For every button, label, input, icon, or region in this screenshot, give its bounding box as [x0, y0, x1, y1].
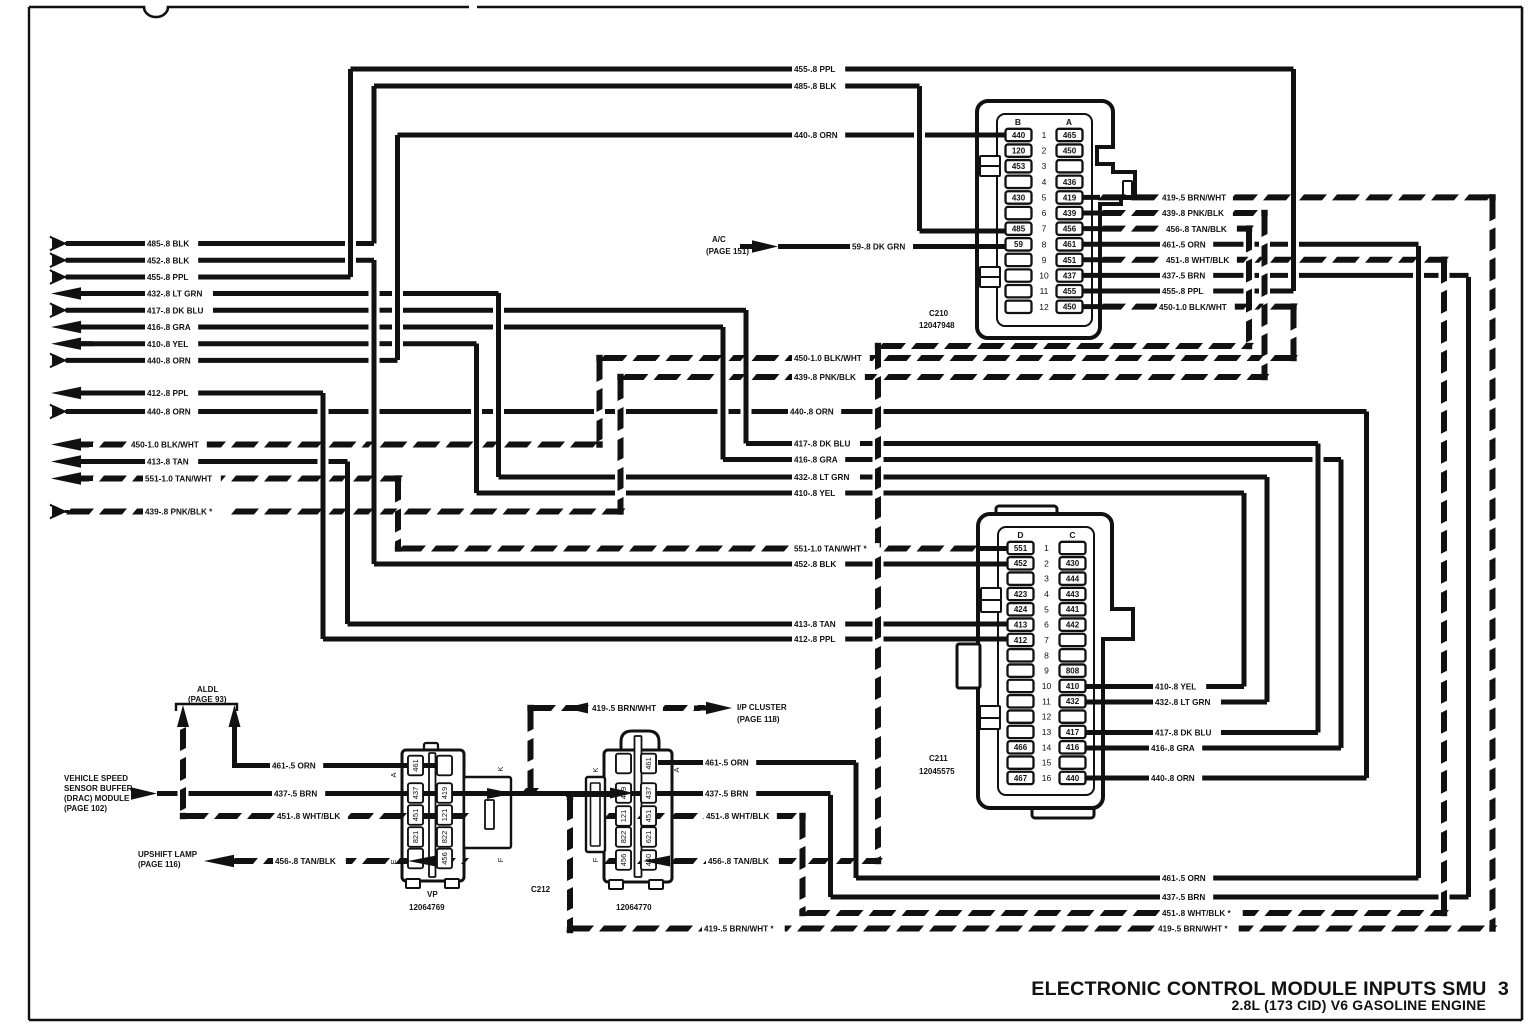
svg-text:430: 430	[1012, 193, 1026, 202]
wire 455 PPL top run	[351, 67, 1294, 72]
wire 417 DK BLU vertical left	[744, 310, 749, 444]
connector C210 inner outline	[997, 114, 1092, 326]
wire 451 WHT/BLK from C212 connector	[604, 813, 632, 819]
C211 pin C9 box	[1060, 664, 1086, 676]
label 440-.8 ORN	[1149, 773, 1202, 784]
label 451-.8 WHT/BLK	[275, 811, 348, 822]
svg-text:12047948: 12047948	[919, 321, 955, 330]
connector 12064770 body	[604, 750, 672, 882]
C210 pin B1 box	[1006, 129, 1032, 141]
svg-text:467: 467	[1014, 774, 1028, 783]
C210 pin A1 box	[1057, 129, 1083, 141]
arrow 452 BLK	[50, 253, 53, 267]
wire 551 stub at pin D1	[976, 546, 1007, 551]
C210 pin A2 box	[1057, 144, 1083, 156]
svg-text:455-.8 PPL: 455-.8 PPL	[794, 65, 835, 74]
arrow 485 BLK	[50, 237, 53, 251]
C211 pin C12 box	[1060, 710, 1086, 722]
wire 452 BLK left row	[66, 258, 345, 263]
C210 pin A10 box	[1057, 269, 1083, 281]
svg-text:451: 451	[1063, 256, 1077, 265]
arrow 432 LT GRN	[51, 287, 81, 299]
wire 416 GRA from pin C14	[1086, 746, 1341, 751]
svg-text:461: 461	[411, 759, 420, 772]
svg-text:452: 452	[1014, 559, 1028, 568]
connector 12064770 bottom foot left	[609, 880, 623, 889]
label 416-.8 GRA	[792, 454, 845, 465]
svg-text:8: 8	[1042, 239, 1047, 249]
svg-text:UPSHIFT LAMP: UPSHIFT LAMP	[138, 850, 198, 859]
wire 451 WHT/BLK vertical right	[1441, 260, 1447, 284]
VP pin box right 4	[437, 827, 452, 847]
svg-text:430: 430	[1066, 559, 1080, 568]
VP pin box left 4	[408, 827, 423, 847]
wire 419 BRN/WHT bottom row	[566, 926, 594, 932]
svg-text:11: 11	[1040, 286, 1049, 296]
label 451-.8 WHT/BLK *	[1160, 908, 1243, 919]
svg-text:59-.8 DK GRN: 59-.8 DK GRN	[852, 243, 905, 252]
wire 410 YEL left row	[66, 341, 369, 346]
dashed corner elbow	[1489, 194, 1495, 200]
svg-text:440-.8 ORN: 440-.8 ORN	[794, 131, 838, 140]
wire 417 DK BLU vertical right	[1316, 444, 1321, 733]
svg-text:440: 440	[1012, 131, 1026, 140]
connector C210 tab slot	[1123, 181, 1132, 199]
svg-text:416: 416	[1066, 743, 1080, 752]
C211 pin C6 box	[1060, 618, 1086, 630]
label 410-.8 YEL	[1153, 681, 1206, 692]
12064770 pin value left 2 overlay	[616, 783, 631, 803]
wire 416 GRA left row	[66, 325, 369, 330]
svg-text:485: 485	[1012, 225, 1026, 234]
wire 412 PPL left row	[66, 391, 323, 396]
C211 pin C16 box	[1060, 772, 1086, 784]
arrow to upshift lamp	[204, 855, 234, 867]
connector VP right latch	[464, 777, 511, 848]
svg-text:121: 121	[440, 809, 449, 822]
wire 419 BRN/WHT stub into C212 connector	[566, 792, 616, 797]
wire 432 LT GRN left row	[66, 291, 369, 296]
dashed corner elbow	[527, 705, 533, 711]
svg-text:456: 456	[1063, 225, 1077, 234]
svg-text:432-.8 LT GRN: 432-.8 LT GRN	[1155, 698, 1210, 707]
12064770 pin value right 4 overlay	[641, 827, 656, 847]
C210 pin B11 box	[1006, 285, 1032, 297]
svg-text:808: 808	[1066, 667, 1080, 676]
C210 pin A5 box	[1057, 191, 1083, 203]
wire 461 ORN from C212 connector	[658, 760, 856, 765]
wire 440 ORN left row	[66, 358, 369, 363]
C211 pin D13 box	[1008, 726, 1034, 738]
wire 461 ORN bottom row	[856, 876, 1419, 881]
connector C211 bottom bump	[1032, 802, 1094, 818]
arrow 456 through VP	[408, 856, 436, 867]
C211 pin C1 box	[1060, 542, 1086, 554]
svg-text:10: 10	[1039, 271, 1049, 281]
wire 455 PPL vertical right	[1291, 69, 1296, 291]
svg-text:1: 1	[1044, 543, 1049, 553]
C211 pin C13 box	[1060, 726, 1086, 738]
dashed corner elbow	[799, 910, 805, 916]
wire 432 LT GRN from pin C11	[1086, 700, 1267, 705]
connector C211 body	[978, 514, 1133, 808]
wire 452 BLK into pin D2	[374, 562, 873, 567]
svg-text:A/C: A/C	[712, 235, 726, 244]
label 551-1.0 TAN/WHT *	[792, 543, 880, 554]
wire 450 BLK/WHT from pin A12	[1098, 304, 1126, 310]
svg-text:432: 432	[1066, 697, 1080, 706]
wire 452 BLK vertical down	[372, 260, 377, 564]
12064770 pin value left 3 overlay	[616, 806, 631, 826]
dashed corner elbow	[617, 508, 623, 514]
svg-text:432-.8 LT GRN: 432-.8 LT GRN	[794, 473, 849, 482]
C211 pin D9 box	[1008, 664, 1034, 676]
C211 pin D8 box	[1008, 649, 1034, 661]
svg-text:466: 466	[1014, 743, 1028, 752]
svg-text:450: 450	[1063, 303, 1077, 312]
arrow ALDL solid up	[229, 705, 241, 727]
label 450-1.0 BLK/WHT	[129, 439, 207, 450]
svg-text:440-.8 ORN: 440-.8 ORN	[1151, 774, 1195, 783]
wire 410 YEL link row	[477, 491, 616, 496]
C211 pin C2 box	[1060, 557, 1086, 569]
VP pin value left 3 overlay	[408, 805, 423, 825]
12064770 pin value left 5 overlay	[616, 850, 631, 870]
label 451-.8 WHT/BLK	[704, 811, 777, 822]
svg-text:410: 410	[1066, 682, 1080, 691]
svg-text:461-.5 ORN: 461-.5 ORN	[705, 759, 749, 768]
svg-text:(PAGE 93): (PAGE 93)	[188, 695, 227, 704]
arrow 437 through C212	[487, 788, 513, 799]
svg-text:10: 10	[1042, 681, 1052, 691]
wire 419 BRN/WHT jog foot	[521, 788, 539, 794]
svg-text:4: 4	[1042, 177, 1047, 187]
svg-text:455: 455	[1063, 287, 1077, 296]
wire 432 LT GRN vertical left	[496, 293, 501, 477]
label 461-.5 ORN	[270, 760, 323, 771]
svg-text:C211: C211	[929, 754, 948, 763]
label 413-.8 TAN	[792, 619, 845, 630]
VP pin box right 5	[437, 849, 452, 869]
C211 pin D14 box	[1008, 741, 1034, 753]
wire 440 ORN from pin C16	[1086, 776, 1367, 781]
C211 pin D2 box	[1008, 557, 1034, 569]
arrow 440 ORN long	[50, 405, 53, 419]
dashed corner elbow	[1261, 210, 1267, 216]
label 452-.8 BLK	[145, 255, 198, 266]
label 439-.8 PNK/BLK *	[143, 506, 226, 517]
label 416-.8 GRA	[145, 322, 198, 333]
label 432-.8 LT GRN	[792, 472, 860, 483]
VP pin value right 2 overlay	[437, 783, 452, 803]
label 455-.8 PPL	[792, 64, 845, 75]
svg-text:437: 437	[411, 787, 420, 800]
svg-text:7: 7	[1044, 635, 1049, 645]
wire 59 DK GRN into pin B8	[778, 244, 1006, 249]
svg-text:13: 13	[1042, 727, 1052, 737]
VP pin value right 4 overlay	[437, 827, 452, 847]
wire 419 BRN/WHT IP cluster row	[528, 705, 556, 711]
svg-text:419-.5 BRN/WHT *: 419-.5 BRN/WHT *	[1158, 925, 1228, 934]
svg-text:A: A	[1066, 117, 1072, 127]
connector VP center rib	[429, 753, 436, 877]
svg-text:120: 120	[1012, 147, 1026, 156]
C211 pin C7 box	[1060, 634, 1086, 646]
svg-text:441: 441	[1066, 605, 1080, 614]
svg-text:419: 419	[1063, 193, 1077, 202]
12064770 pin box right 3	[641, 806, 656, 826]
svg-text:F: F	[496, 857, 505, 862]
wire 410 YEL from pin C10	[1086, 684, 1244, 689]
label 452-.8 BLK	[792, 559, 845, 570]
C210 pin A8 box	[1057, 238, 1083, 250]
wire 451 stub at pin A9	[1083, 257, 1100, 262]
svg-text:14: 14	[1042, 742, 1052, 752]
wire 455 PPL from pin A11	[1083, 289, 1244, 294]
svg-text:419-.5 BRN/WHT *: 419-.5 BRN/WHT *	[704, 925, 774, 934]
svg-text:410-.8 YEL: 410-.8 YEL	[147, 340, 188, 349]
C211 pin C14 box	[1060, 741, 1086, 753]
svg-text:SENSOR BUFFER: SENSOR BUFFER	[64, 784, 133, 793]
connector C211 left mounting tab	[957, 644, 980, 688]
wire 451 WHT/BLK from pin A9	[1098, 257, 1126, 263]
arrow 417 DK BLU	[50, 303, 53, 317]
C210 pin A6 box	[1057, 207, 1083, 219]
dashed corner elbow	[1246, 225, 1252, 231]
connector VP body	[402, 750, 464, 881]
dashed corner elbow	[1489, 925, 1495, 931]
VP pin box right 1	[437, 756, 452, 776]
wire 440 ORN top run into pin B1	[398, 133, 915, 138]
connector VP bottom foot right	[445, 879, 459, 888]
dashed corner elbow	[180, 813, 186, 819]
svg-text:12064770: 12064770	[616, 903, 652, 912]
12064770 pin value right 2 overlay	[641, 783, 656, 803]
arrow 410 YEL	[51, 338, 81, 350]
svg-text:410-.8 YEL: 410-.8 YEL	[1155, 683, 1196, 692]
VP pin box right 2	[437, 783, 452, 803]
label 456-.8 TAN/BLK	[706, 856, 779, 867]
svg-text:VEHICLE SPEED: VEHICLE SPEED	[64, 774, 128, 783]
wire 437 BRN vertical bottom	[828, 795, 833, 897]
svg-text:621: 621	[644, 831, 653, 844]
12064770 pin box left 2	[616, 783, 631, 803]
C211 pin D5 box	[1008, 603, 1034, 615]
svg-text:451: 451	[411, 809, 420, 822]
svg-text:(DRAC) MODULE: (DRAC) MODULE	[64, 794, 130, 803]
svg-text:413: 413	[1014, 621, 1028, 630]
12064770 pin box right 5	[641, 850, 656, 870]
svg-text:461-.5 ORN: 461-.5 ORN	[272, 762, 316, 771]
C211 pin D1 box	[1008, 542, 1034, 554]
wire 437 BRN row	[157, 791, 178, 796]
wire 485 BLK vertical up	[372, 86, 377, 244]
svg-text:11: 11	[1042, 696, 1051, 706]
label 461-.5 ORN	[1160, 873, 1213, 884]
svg-text:822: 822	[440, 831, 449, 844]
svg-text:419-.5 BRN/WHT: 419-.5 BRN/WHT	[1162, 194, 1226, 203]
dashed corner elbow	[1441, 910, 1447, 916]
svg-text:453: 453	[1012, 162, 1026, 171]
wire 461 ORN vertical bottom	[854, 763, 859, 879]
svg-text:I/P CLUSTER: I/P CLUSTER	[737, 703, 787, 712]
dashed corner elbow	[395, 545, 401, 551]
C210 pin B9 box	[1006, 254, 1032, 266]
VP pin value left 2 overlay	[408, 783, 423, 803]
wire 410 YEL vertical right	[1242, 493, 1247, 687]
connector 12064770 latch inner	[591, 783, 601, 846]
wire 437 BRN from pin A10	[1083, 273, 1244, 278]
svg-text:423: 423	[1014, 590, 1028, 599]
svg-text:412: 412	[1014, 636, 1028, 645]
wire 451 WHT/BLK vertical ALDL	[180, 727, 186, 751]
wire 419 BRN/WHT vertical jog lower	[567, 797, 573, 821]
wire 432 LT GRN link row	[499, 475, 616, 480]
wire 456 TAN/BLK from C212 connector	[604, 858, 632, 864]
svg-text:450-1.0 BLK/WHT: 450-1.0 BLK/WHT	[1159, 303, 1227, 312]
C210 pin B8 box	[1006, 238, 1032, 250]
wire 412 PPL vertical	[321, 393, 326, 639]
svg-text:3: 3	[1044, 574, 1049, 584]
VP pin box left 1	[408, 756, 423, 776]
C211 pin D12 box	[1008, 710, 1034, 722]
svg-text:443: 443	[1066, 590, 1080, 599]
C210 pin B5 box	[1006, 191, 1032, 203]
wire 456 TAN/BLK vertical middle	[875, 346, 881, 370]
VP pin box left 3	[408, 805, 423, 825]
label 440-.8 ORN	[792, 130, 845, 141]
wire 419 BRN/WHT from pin A5	[1098, 194, 1126, 200]
svg-text:5: 5	[1044, 604, 1049, 614]
wire 551 TAN/WHT into pin D1	[398, 546, 426, 552]
svg-text:440-.8 ORN: 440-.8 ORN	[147, 357, 191, 366]
svg-text:437-.5 BRN: 437-.5 BRN	[274, 790, 317, 799]
label 419-.5 BRN/WHT	[590, 703, 663, 714]
label 455-.8 PPL	[145, 272, 198, 283]
svg-text:451-.8 WHT/BLK *: 451-.8 WHT/BLK *	[1162, 909, 1232, 918]
svg-text:437: 437	[644, 787, 653, 800]
svg-text:451: 451	[644, 810, 653, 823]
svg-text:439-.8 PNK/BLK: 439-.8 PNK/BLK	[794, 373, 856, 382]
label 450-1.0 BLK/WHT	[792, 353, 870, 364]
C210 pin B12 box	[1006, 301, 1032, 313]
arrow ALDL dashed up	[177, 705, 189, 727]
svg-text:121: 121	[619, 810, 628, 823]
VP pin box left 5	[408, 849, 423, 869]
label 437-.5 BRN	[1160, 892, 1213, 903]
svg-text:437-.5 BRN: 437-.5 BRN	[705, 790, 748, 799]
wire 440 ORN vertical left	[395, 135, 400, 360]
C210 pin B7 box	[1006, 223, 1032, 235]
arrow 450 BLK/WHT	[51, 438, 81, 450]
page border top	[29, 7, 1522, 17]
svg-text:465: 465	[1063, 131, 1077, 140]
svg-text:2: 2	[1042, 146, 1047, 156]
svg-text:15: 15	[1042, 758, 1052, 768]
svg-text:412-.8 PPL: 412-.8 PPL	[147, 389, 188, 398]
dashed corner elbow	[875, 343, 881, 349]
C210 pin A4 box	[1057, 176, 1083, 188]
wire 413 TAN vertical	[345, 462, 350, 625]
dashed corner elbow	[1290, 303, 1296, 309]
wire 417 DK BLU left row	[66, 308, 369, 313]
wire 419 BRN/WHT vertical right	[1490, 197, 1496, 221]
VP pin value left 5 overlay	[408, 849, 423, 869]
connector VP top tab	[424, 743, 438, 753]
svg-text:461-.5 ORN: 461-.5 ORN	[1162, 874, 1206, 883]
svg-text:416-.8 GRA: 416-.8 GRA	[794, 456, 838, 465]
svg-text:419: 419	[440, 787, 449, 800]
wire 437 BRN bottom row	[831, 895, 1439, 900]
svg-text:456: 456	[619, 854, 628, 867]
connector C210 left bump lower	[980, 267, 1000, 277]
label 417-.8 DK BLU	[792, 438, 860, 449]
C211 pin C4 box	[1060, 588, 1086, 600]
12064770 pin box left 3	[616, 806, 631, 826]
wire 450 stub at pin A12	[1083, 304, 1100, 309]
wire 451 WHT/BLK into VP connector	[181, 813, 209, 819]
svg-text:485-.8 BLK: 485-.8 BLK	[147, 240, 189, 249]
svg-text:K: K	[496, 766, 505, 771]
svg-text:551-1.0 TAN/WHT: 551-1.0 TAN/WHT	[145, 475, 212, 484]
svg-text:ALDL: ALDL	[197, 685, 218, 694]
wire 440 ORN long row	[66, 409, 318, 414]
label 437-.5 BRN	[1160, 270, 1213, 281]
wire 432 LT GRN vertical right	[1265, 477, 1270, 702]
label 451-.8 WHT/BLK	[1164, 254, 1237, 265]
wire 450 BLK/WHT vertical left	[597, 358, 603, 382]
label 416-.8 GRA	[1149, 743, 1202, 754]
svg-text:7: 7	[1042, 224, 1047, 234]
wire 439 PNK/BLK vertical left	[618, 377, 624, 401]
label 461-.5 ORN	[1160, 239, 1213, 250]
dashed corner elbow	[395, 475, 401, 481]
svg-text:2: 2	[1044, 558, 1049, 568]
svg-text:455-.8 PPL: 455-.8 PPL	[1162, 287, 1203, 296]
label 461-.5 ORN	[703, 757, 756, 768]
svg-text:12: 12	[1039, 302, 1049, 312]
svg-text:C210: C210	[929, 309, 949, 318]
label 456-.8 TAN/BLK	[1164, 223, 1237, 234]
svg-text:440-.8 ORN: 440-.8 ORN	[147, 408, 191, 417]
wire 417 DK BLU link row	[746, 441, 873, 446]
svg-text:461: 461	[644, 757, 653, 770]
connector C211 left bump lower	[980, 706, 1000, 718]
svg-text:A: A	[389, 772, 398, 777]
label 419-.5 BRN/WHT *	[1156, 923, 1239, 934]
C210 pin B3 box	[1006, 160, 1032, 172]
VP pin value right 5 overlay	[437, 849, 452, 869]
C211 pin D10 box	[1008, 680, 1034, 692]
svg-text:456-.8 TAN/BLK: 456-.8 TAN/BLK	[1166, 225, 1227, 234]
wire 551 TAN/WHT vertical	[395, 479, 401, 503]
svg-text:(PAGE 118): (PAGE 118)	[737, 715, 780, 724]
wire 461 ORN vertical ALDL	[232, 727, 237, 766]
svg-text:451-.8 WHT/BLK: 451-.8 WHT/BLK	[277, 812, 340, 821]
label 417-.8 DK BLU	[1153, 727, 1221, 738]
arrow A/C to pin B8	[740, 244, 756, 249]
svg-text:416-.8 GRA: 416-.8 GRA	[147, 323, 191, 332]
label 439-.8 PNK/BLK	[792, 372, 865, 383]
label 440-.8 ORN	[788, 406, 841, 417]
svg-text:12: 12	[1042, 712, 1052, 722]
wire 440 ORN vertical right	[1364, 412, 1369, 779]
wire 419 BRN/WHT vertical jog upper	[528, 708, 534, 732]
svg-text:417-.8 DK BLU: 417-.8 DK BLU	[794, 440, 851, 449]
connector 12064770 bottom foot right	[649, 880, 663, 889]
svg-text:450: 450	[1063, 147, 1077, 156]
svg-text:8: 8	[1044, 650, 1049, 660]
